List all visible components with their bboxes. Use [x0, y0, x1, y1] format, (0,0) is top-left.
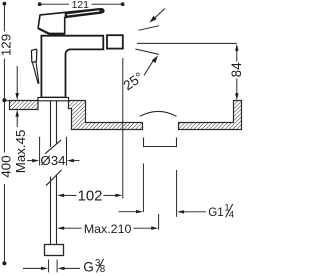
- dimension 129 line: [2, 2, 6, 103]
- spray angle rays: [135, 26, 236, 55]
- svg-text:4: 4: [229, 210, 234, 221]
- hose break slash upper: [45, 140, 61, 154]
- leader arrow to upper ray: [149, 9, 165, 23]
- drain hole dimension arrows: [119, 164, 206, 217]
- drain waste pipe: [144, 138, 177, 147]
- dimension 84 line: [235, 44, 239, 100]
- dimension G3/8 ticks and arrows: [23, 260, 80, 273]
- drain dome arc: [140, 111, 177, 116]
- dimension D34 ext lines: [27, 137, 80, 166]
- svg-text:400: 400: [0, 155, 14, 177]
- dimension 102 line: [57, 58, 123, 199]
- dimension Max.210 line: [57, 214, 158, 230]
- bidet shelf right + rim: [179, 101, 242, 130]
- bidet deck left section: [10, 101, 242, 130]
- faucet aerator nozzle: [107, 35, 123, 48]
- supply hose upper segment: [45, 101, 62, 245]
- deck top extension line to left: [3, 99, 9, 102]
- dimension 400 line: [2, 100, 6, 265]
- svg-text:102: 102: [77, 188, 102, 205]
- svg-text:G: G: [83, 260, 94, 275]
- svg-text:G1: G1: [208, 206, 223, 219]
- svg-text:121: 121: [72, 0, 90, 11]
- supply hose lower segment: [50, 177, 52, 245]
- G1 1/4 label: [208, 203, 234, 221]
- svg-text:84: 84: [229, 62, 243, 78]
- svg-text:129: 129: [0, 34, 14, 56]
- faucet lever handle: [38, 9, 104, 34]
- G3/8 connection nut: [45, 245, 64, 256]
- lever underside thick edge: [49, 33, 65, 36]
- faucet body U1: [41, 36, 103, 98]
- svg-text:Max.210: Max.210: [84, 222, 132, 236]
- dimension Max.45 arrows: [15, 66, 19, 127]
- svg-text:Ø34: Ø34: [40, 153, 65, 168]
- svg-text:8: 8: [100, 264, 106, 275]
- dimension 121 line: [38, 2, 125, 6]
- hose break slash lower: [46, 170, 62, 186]
- side control knob paddle: [31, 49, 36, 62]
- leader arrow to lower ray: [144, 56, 158, 76]
- faucet base flange: [38, 98, 69, 101]
- svg-text:Max.45: Max.45: [13, 130, 28, 174]
- bidet deck right + bowl step: [69, 101, 143, 130]
- G3/8 label: [83, 258, 106, 275]
- side knob stem: [32, 62, 39, 84]
